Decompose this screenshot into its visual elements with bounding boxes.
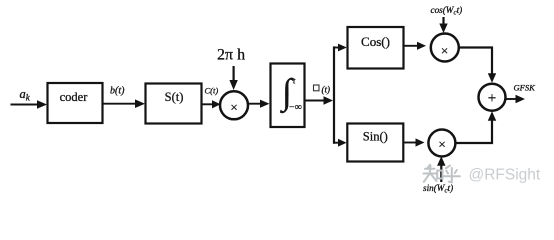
block Cos bbox=[348, 27, 404, 69]
svg-text:×: × bbox=[230, 99, 237, 114]
wire M3 to adder bbox=[455, 119, 492, 143]
svg-text:b(t): b(t) bbox=[110, 86, 125, 97]
block integrator bbox=[271, 64, 305, 128]
wire M2 to adder bbox=[459, 48, 492, 75]
svg-text:cos(Wct): cos(Wct) bbox=[431, 5, 463, 17]
multiplier M1 bbox=[220, 91, 248, 119]
block Sin bbox=[347, 124, 403, 162]
wire S(t) to multiplier bbox=[202, 103, 213, 105]
wire integrator output bbox=[305, 100, 325, 102]
wire arrow sin into M3 bbox=[440, 164, 442, 182]
svg-text:GFSK: GFSK bbox=[514, 83, 537, 93]
wire Sin to M3 bbox=[404, 142, 417, 144]
wire arrow cos into M2 bbox=[442, 17, 444, 25]
wire branch to Cos bbox=[333, 47, 339, 49]
svg-text:Cos(): Cos() bbox=[361, 34, 390, 49]
svg-text:×: × bbox=[441, 43, 448, 58]
svg-text:t: t bbox=[293, 76, 296, 86]
svg-text:(t): (t) bbox=[322, 85, 331, 95]
wire arrow 2pi h into M1 bbox=[233, 66, 235, 82]
wire branch vertical bbox=[333, 46, 335, 143]
svg-text:×: × bbox=[438, 136, 445, 151]
wire output arrow bbox=[506, 98, 517, 100]
svg-text:ak: ak bbox=[20, 87, 31, 103]
svg-text:2π h: 2π h bbox=[217, 46, 245, 63]
watermark zhihu logo bbox=[424, 165, 460, 183]
node phi(t) label bbox=[314, 85, 320, 91]
svg-text:sin(Wct): sin(Wct) bbox=[423, 183, 453, 195]
svg-text:−∞: −∞ bbox=[289, 102, 302, 113]
svg-text:@RFSight: @RFSight bbox=[469, 167, 541, 184]
svg-text:Sin(): Sin() bbox=[363, 129, 388, 143]
wire M1 to integrator bbox=[248, 103, 261, 105]
svg-text:S(t): S(t) bbox=[165, 90, 184, 104]
block S(t) bbox=[146, 84, 202, 124]
multiplier M3 bbox=[428, 130, 455, 157]
wire Cos to M2 bbox=[404, 45, 418, 47]
wire input arrow into coder bbox=[11, 104, 40, 106]
adder bbox=[479, 84, 506, 111]
wire branch to Sin bbox=[333, 142, 339, 144]
svg-text:+: + bbox=[488, 90, 496, 106]
multiplier M2 bbox=[431, 34, 459, 62]
wire coder to S(t) bbox=[103, 103, 137, 105]
svg-text:C(t): C(t) bbox=[205, 86, 219, 96]
block coder bbox=[48, 83, 103, 123]
svg-text:coder: coder bbox=[60, 90, 89, 104]
